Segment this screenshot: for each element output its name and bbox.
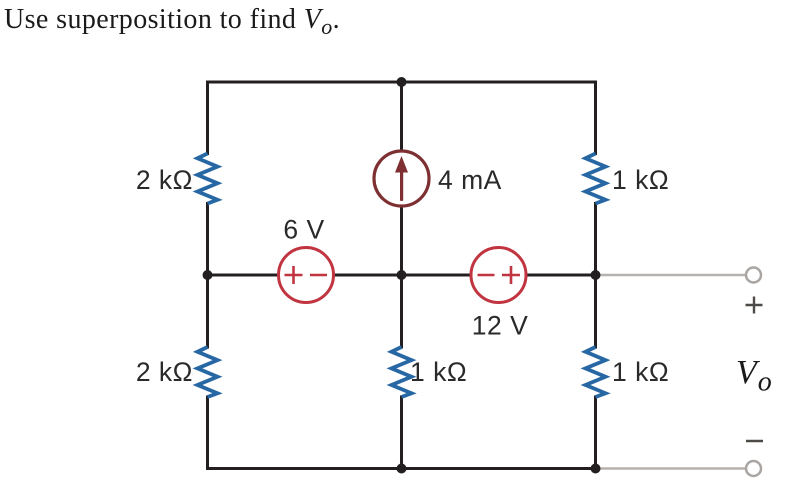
wire middle branch top lead — [400, 82, 403, 151]
resistor R2 2 kOhm bottom-left — [198, 347, 218, 397]
minus output mark — [746, 440, 763, 443]
node middle-center — [397, 270, 407, 280]
svg-text:6 V: 6 V — [283, 215, 324, 245]
wire middle row left segment — [208, 274, 279, 277]
wire middle row right segment — [526, 274, 596, 277]
current source I1 4 mA circle — [374, 151, 429, 206]
terminal bottom output — [746, 461, 761, 476]
svg-text:1 kΩ: 1 kΩ — [612, 165, 669, 195]
wire right branch upper lead — [594, 82, 597, 154]
wire middle branch bottom lead — [400, 397, 403, 469]
node bottom-right — [591, 464, 601, 474]
svg-text:Use superposition to find Vo.: Use superposition to find Vo. — [4, 4, 340, 39]
wire right branch middle — [594, 204, 597, 348]
svg-text:4 mA: 4 mA — [438, 165, 502, 195]
svg-text:1 kΩ: 1 kΩ — [612, 357, 669, 387]
resistor R4 1 kOhm middle-bottom — [392, 347, 412, 397]
wire left branch upper lead — [206, 82, 209, 154]
voltage source V2 12V circle — [471, 248, 526, 303]
terminal top output — [746, 268, 761, 283]
wire middle row center segment — [334, 274, 472, 277]
wire top horizontal — [208, 81, 596, 84]
resistor R3 1 kOhm top-right — [586, 154, 606, 204]
node middle-left — [203, 270, 213, 280]
plus output mark — [746, 297, 763, 314]
wire left branch lower lead — [206, 397, 209, 469]
current source I1 arrow — [395, 156, 408, 201]
wire gray output top — [596, 274, 747, 277]
voltage source V2 minus — [478, 266, 521, 284]
wire left branch middle — [206, 204, 209, 348]
svg-text:2 kΩ: 2 kΩ — [136, 165, 193, 195]
voltage source V1 minus — [310, 274, 327, 277]
wire gray output bottom — [596, 467, 747, 470]
svg-text:12 V: 12 V — [472, 311, 529, 341]
resistor R1 2 kOhm top-left — [198, 154, 218, 204]
node top-middle — [397, 77, 407, 87]
wire bottom horizontal — [208, 467, 596, 470]
node middle-right — [591, 270, 601, 280]
resistor R5 1 kOhm bottom-right — [586, 347, 606, 397]
voltage source V1 plus — [285, 266, 328, 284]
svg-text:2 kΩ: 2 kΩ — [136, 357, 193, 387]
voltage source V1 6V circle — [279, 248, 334, 303]
svg-text:1 kΩ: 1 kΩ — [410, 357, 467, 387]
wire middle branch between source and resistor — [400, 206, 403, 347]
wire right branch lower lead — [594, 397, 597, 469]
voltage source V2 plus — [502, 274, 520, 277]
node bottom-middle — [397, 464, 407, 474]
